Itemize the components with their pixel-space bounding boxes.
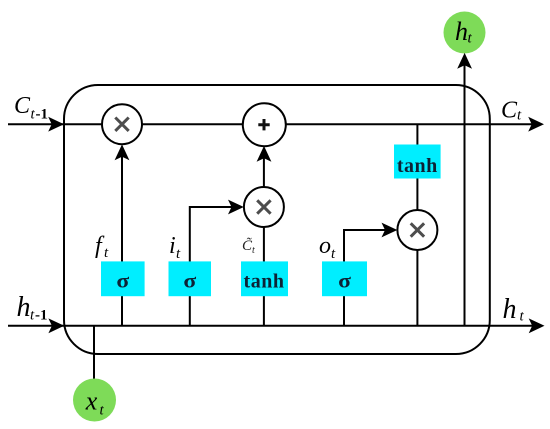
multiply node candidate bbox=[244, 187, 284, 227]
sigma box f (forget gate) bbox=[101, 261, 145, 296]
label C~_t (candidate) bbox=[242, 237, 255, 256]
multiply node forget bbox=[102, 104, 142, 144]
label C_{t-1} bbox=[14, 93, 48, 123]
arrowhead: output gate into multiply bbox=[382, 223, 398, 238]
label h_t (right) bbox=[503, 294, 525, 325]
svg-text:σ: σ bbox=[116, 270, 129, 292]
svg-text:C: C bbox=[14, 93, 31, 119]
svg-text:x: x bbox=[85, 387, 98, 416]
wire: C-state horizontal line bbox=[8, 123, 537, 125]
arrowhead: C_t out right bbox=[528, 117, 544, 132]
wire: output multiply down to h line bbox=[416, 246, 418, 326]
label o_t bbox=[319, 233, 336, 262]
svg-text:tanh: tanh bbox=[244, 271, 285, 293]
plus node bbox=[243, 103, 286, 146]
h_t output circle (green) bbox=[444, 12, 486, 54]
wire: hidden-state horizontal line bbox=[8, 325, 537, 327]
arrowhead: up into h_t circle bbox=[457, 53, 472, 69]
arrowhead: candidate into plus bbox=[257, 146, 272, 162]
svg-text:h: h bbox=[455, 17, 468, 46]
wire: C branch down through tanh bbox=[416, 124, 418, 214]
label f_t bbox=[95, 233, 109, 261]
arrowhead: h line into cell bbox=[48, 318, 64, 333]
arrowhead: forget into multiply bbox=[115, 144, 130, 160]
svg-text:-1: -1 bbox=[36, 107, 49, 123]
wire: multiply to plus vertical bbox=[263, 152, 265, 190]
svg-text:σ: σ bbox=[183, 270, 196, 292]
label C_t bbox=[501, 98, 522, 124]
svg-text:σ: σ bbox=[338, 270, 351, 292]
tanh box candidate bbox=[241, 261, 288, 296]
wire: output-gate vertical + horizontal into multiply bbox=[344, 230, 390, 326]
wire: candidate vertical (tanh to multiply) bbox=[263, 212, 265, 326]
svg-text:tanh: tanh bbox=[397, 155, 438, 177]
svg-text:h: h bbox=[503, 294, 517, 325]
svg-text:C: C bbox=[501, 98, 518, 124]
arrowhead: h_t out right bbox=[529, 318, 545, 333]
x_t input circle (green) bbox=[73, 379, 116, 422]
sigma box i (input gate) bbox=[169, 261, 212, 296]
label h_{t-1} bbox=[17, 292, 48, 324]
arrowhead: C line into cell bbox=[48, 117, 64, 132]
svg-text:i: i bbox=[169, 233, 176, 259]
svg-text:h: h bbox=[17, 292, 31, 323]
tanh box output bbox=[394, 145, 441, 179]
multiply node output bbox=[397, 210, 437, 250]
wire: h_t output vertical up bbox=[464, 60, 466, 326]
wire: forget-gate vertical bbox=[121, 152, 123, 326]
wire: input-gate vertical + horizontal into multiply bbox=[190, 207, 236, 326]
sigma box o (output gate) bbox=[322, 261, 367, 296]
svg-text:o: o bbox=[319, 233, 331, 259]
arrowhead: input into multiply bbox=[228, 200, 244, 215]
cell body rounded rectangle bbox=[64, 85, 490, 354]
svg-text:-1: -1 bbox=[35, 308, 48, 324]
wire: x_t input vertical bbox=[93, 326, 95, 380]
label i_t bbox=[169, 233, 181, 262]
svg-text:t: t bbox=[252, 245, 255, 256]
